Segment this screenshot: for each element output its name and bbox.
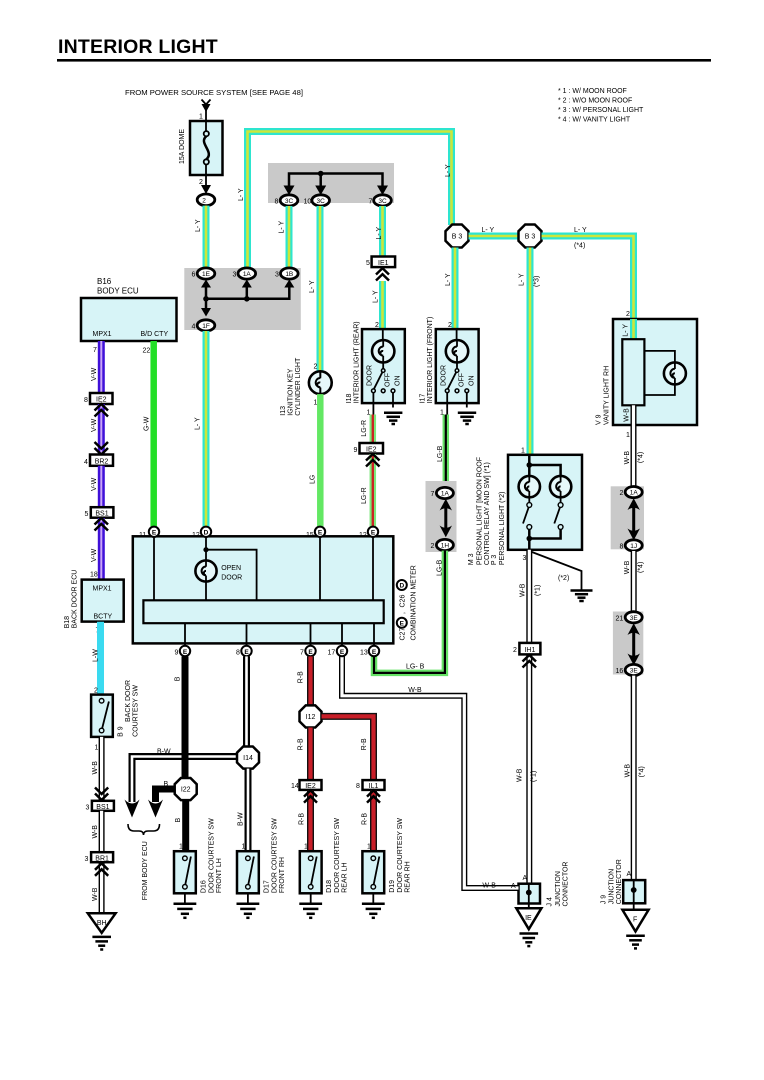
svg-text:E: E: [372, 649, 377, 656]
connector ellipse 7 1A: [431, 487, 454, 498]
pass-through arrows between 3E pair: [628, 623, 640, 665]
svg-text:B-W: B-W: [157, 749, 171, 756]
wire B I22 to D16: [175, 800, 186, 851]
svg-text:E: E: [400, 620, 405, 627]
svg-text:J 9: J 9: [601, 895, 608, 904]
wire W-B V9 to 1A right: [624, 425, 645, 487]
svg-text:(*2): (*2): [558, 575, 569, 582]
ground below D17: [237, 893, 260, 918]
svg-text:D: D: [399, 583, 404, 590]
ground below I18: [384, 413, 402, 424]
connector ellipse 8 3C: [275, 195, 298, 206]
svg-text:IGNITION KEY: IGNITION KEY: [288, 368, 295, 415]
wire R-B IL1 to D19: [362, 790, 374, 851]
svg-text:L- Y: L- Y: [445, 164, 452, 177]
svg-text:3: 3: [85, 856, 89, 863]
wire W-B from meter 17E to J4: [342, 656, 519, 889]
wire L-Y B3 right to vanity light: [542, 227, 634, 319]
svg-text:2: 2: [431, 543, 435, 550]
svg-text:3C: 3C: [317, 198, 326, 205]
svg-text:10: 10: [304, 199, 312, 206]
svg-text:2: 2: [199, 179, 203, 186]
svg-text:17: 17: [328, 650, 336, 657]
gray connector block 3C: [268, 163, 394, 203]
wire stub I18 pin 1: [367, 403, 374, 416]
svg-text:W-B: W-B: [624, 560, 631, 574]
wire W-B BS1 to BR1: [92, 811, 102, 852]
svg-text:DOOR COURTESY SW: DOOR COURTESY SW: [272, 818, 279, 893]
svg-text:B 3: B 3: [525, 234, 536, 241]
wire LG I13 to meter 15E: [310, 394, 321, 527]
svg-text:R-B: R-B: [299, 813, 306, 825]
svg-text:12: 12: [192, 532, 200, 539]
svg-text:14: 14: [291, 783, 299, 790]
svg-text:VANITY LIGHT RH: VANITY LIGHT RH: [604, 366, 611, 425]
I18 INTERIOR LIGHT (REAR): [346, 321, 405, 407]
svg-text:* 1 : W/ MOON ROOF: * 1 : W/ MOON ROOF: [558, 88, 627, 95]
svg-text:(*1): (*1): [535, 585, 542, 596]
svg-text:(*4): (*4): [638, 452, 645, 463]
connector ellipse 6 1E: [192, 268, 215, 279]
octagon I22: [175, 778, 197, 800]
gray connector block 1A/1H: [426, 481, 457, 552]
connector box 3 BS1 lower: [86, 801, 114, 812]
svg-text:2: 2: [202, 197, 206, 204]
meter pin 8 E: [236, 646, 252, 657]
svg-text:J 4: J 4: [547, 897, 554, 906]
svg-text:JUNCTION: JUNCTION: [609, 869, 616, 904]
svg-text:B 9: B 9: [118, 726, 125, 737]
svg-text:DOOR: DOOR: [367, 365, 374, 386]
svg-text:1: 1: [367, 844, 371, 851]
wire V-W BS1 to back door ECU: [90, 518, 101, 580]
svg-text:3C: 3C: [378, 198, 387, 205]
wire from power source into fuse: [199, 100, 211, 121]
svg-text:1F: 1F: [202, 323, 210, 330]
svg-text:FRONT LH: FRONT LH: [216, 858, 223, 893]
svg-text:COURTESY SW: COURTESY SW: [133, 685, 140, 737]
svg-text:DOOR COURTESY SW: DOOR COURTESY SW: [209, 818, 216, 893]
svg-text:R-B: R-B: [298, 671, 305, 683]
svg-text:* 4 : W/ VANITY LIGHT: * 4 : W/ VANITY LIGHT: [558, 117, 631, 124]
svg-text:BACK DOOR ECU: BACK DOOR ECU: [72, 570, 79, 629]
wire R-B meter 7E to I12: [298, 656, 311, 706]
svg-text:15: 15: [306, 532, 314, 539]
svg-text:DOOR: DOOR: [440, 365, 447, 386]
chevron arrows above BS1 lower: [95, 788, 108, 801]
svg-text:W-B: W-B: [624, 451, 631, 465]
svg-text:D16: D16: [201, 880, 208, 893]
meter internal wire 15E to bus: [319, 537, 321, 600]
connector ellipse 21 3E: [616, 612, 643, 623]
svg-text:W-B: W-B: [92, 761, 99, 775]
connector box 8 IE2: [84, 393, 113, 404]
svg-text:L- Y: L- Y: [376, 226, 383, 239]
svg-text:I12: I12: [306, 714, 316, 721]
wire B-W I14 to D17: [238, 769, 249, 852]
svg-text:B/D CTY: B/D CTY: [141, 331, 169, 338]
connector box 3 BR1: [85, 852, 114, 863]
svg-text:R-B: R-B: [298, 738, 305, 750]
connector ellipse 8 1J: [620, 540, 643, 551]
octagon I12: [300, 705, 322, 727]
I17 INTERIOR LIGHT (FRONT): [420, 317, 479, 408]
svg-text:DOOR COURTESY SW: DOOR COURTESY SW: [334, 818, 341, 893]
wire R-B I12 down to IE2: [298, 728, 311, 781]
wire W-B M3 to IH1: [520, 550, 542, 643]
svg-text:21: 21: [616, 615, 624, 622]
chevron arrows below IL1: [367, 790, 380, 802]
svg-text:8: 8: [84, 397, 88, 404]
connector ellipse 2 1H: [431, 539, 454, 550]
svg-text:C27: C27: [400, 628, 407, 641]
svg-text:ON: ON: [468, 376, 475, 387]
svg-text:OFF: OFF: [458, 373, 465, 387]
svg-text:15A DOME: 15A DOME: [179, 129, 186, 164]
svg-text:E: E: [371, 530, 376, 537]
svg-text:E: E: [152, 530, 157, 537]
svg-text:L- Y: L- Y: [574, 227, 587, 234]
chevron arrows below IE2 rear: [366, 454, 380, 467]
svg-text:P 3: P 3: [491, 555, 498, 565]
svg-text:INTERIOR LIGHT (FRONT): INTERIOR LIGHT (FRONT): [427, 317, 434, 404]
svg-text:1J: 1J: [630, 543, 637, 550]
svg-text:REAR RH: REAR RH: [404, 861, 411, 893]
svg-text:7: 7: [431, 491, 435, 498]
ground below D16: [174, 893, 197, 918]
svg-text:7: 7: [300, 650, 304, 657]
B18 BACK DOOR ECU box: [64, 570, 124, 635]
D17 DOOR COURTESY SW FRONT RH: [237, 818, 286, 893]
chevron arrows below IE2: [95, 404, 109, 417]
svg-text:E: E: [183, 649, 188, 656]
ground below D18: [299, 893, 322, 918]
svg-text:I17: I17: [420, 393, 427, 403]
svg-text:(*4): (*4): [574, 243, 585, 250]
wire W-B 1J to 3E: [624, 551, 645, 612]
V9 VANITY LIGHT RH: [596, 311, 698, 439]
svg-text:DOOR COURTESY SW: DOOR COURTESY SW: [397, 818, 404, 893]
ground branch (*2) from M3: [529, 551, 592, 601]
svg-text:4: 4: [192, 324, 196, 331]
svg-text:8: 8: [236, 650, 240, 657]
svg-text:B18: B18: [64, 616, 71, 629]
meter pin 12 D: [192, 527, 211, 539]
svg-text:L- Y: L- Y: [195, 219, 202, 232]
svg-text:V-W: V-W: [91, 477, 98, 491]
ground triangle F: [622, 903, 648, 948]
svg-text:CONTROL RELAY AND SW] (*1): CONTROL RELAY AND SW] (*1): [484, 462, 491, 565]
svg-text:LG- B: LG- B: [406, 664, 425, 671]
svg-text:1A: 1A: [441, 491, 450, 498]
meter internal bus bar: [143, 600, 383, 623]
wire B-W meter 8E to I14: [243, 656, 250, 747]
svg-text:W-B: W-B: [92, 825, 99, 839]
svg-text:W-B: W-B: [520, 583, 527, 597]
svg-text:2: 2: [626, 311, 630, 318]
svg-text:CONNECTOR: CONNECTOR: [616, 859, 623, 904]
pass-through arrows between 1A and 1H: [440, 499, 452, 538]
svg-text:L- Y: L- Y: [238, 188, 245, 201]
meter internal wire 12E to bus: [372, 537, 374, 600]
wire L-Y B3 left down to I17: [445, 248, 455, 330]
svg-text:1: 1: [199, 114, 203, 121]
svg-text:(*4): (*4): [638, 562, 645, 573]
svg-text:1E: 1E: [202, 271, 211, 278]
svg-text:PERSONAL LIGHT [MOON ROOF: PERSONAL LIGHT [MOON ROOF: [476, 457, 483, 565]
svg-text:6: 6: [192, 272, 196, 279]
wire W-B BR1 to BH ground: [92, 863, 102, 913]
svg-text:BR2: BR2: [95, 458, 109, 465]
svg-text:V 9: V 9: [596, 414, 603, 425]
svg-text:2: 2: [314, 364, 318, 371]
svg-text:L- Y: L- Y: [373, 290, 380, 303]
connector ellipse 2 1A right: [620, 487, 643, 498]
svg-text:V-W: V-W: [91, 367, 98, 381]
wire B meter 9E to I22: [175, 656, 186, 778]
svg-text:(*1): (*1): [531, 771, 538, 782]
svg-text:A: A: [523, 875, 528, 882]
svg-text:IE1: IE1: [378, 260, 389, 267]
svg-text:D17: D17: [264, 880, 271, 893]
svg-text:13: 13: [360, 650, 368, 657]
svg-text:B: B: [175, 818, 182, 823]
svg-text:1: 1: [521, 448, 525, 455]
wire L-Y 1F down to meter 12D: [195, 331, 207, 527]
ground triangle IE: [516, 904, 541, 947]
svg-text:FROM POWER SOURCE SYSTEM [SEE: FROM POWER SOURCE SYSTEM [SEE PAGE 48]: [125, 88, 303, 97]
svg-text:A: A: [627, 871, 632, 878]
meter pin 15 E: [306, 527, 325, 539]
svg-text:LG: LG: [310, 475, 317, 484]
wire B I22 left branch to body ECU arrow: [148, 781, 175, 818]
svg-text:W-B: W-B: [624, 408, 631, 422]
connector ellipse 7 3C: [369, 195, 392, 206]
wire L-Y IE1 down to interior light rear: [373, 281, 383, 329]
svg-text:3: 3: [86, 805, 90, 812]
connector box 5 BS1: [85, 507, 114, 518]
ground below I17: [458, 413, 476, 424]
svg-text:3: 3: [523, 555, 527, 562]
wire L-Y fuse column (2 to 1E): [195, 206, 206, 269]
wire LG-B 1H down and to meter 13E: [374, 551, 445, 673]
connector ellipse 16 3E: [616, 664, 643, 675]
svg-text:* 2 : W/O MOON ROOF: * 2 : W/O MOON ROOF: [558, 98, 632, 105]
svg-text:3E: 3E: [630, 668, 639, 675]
B9 BACK DOOR COURTESY SW: [91, 680, 139, 737]
svg-text:L- Y: L- Y: [195, 417, 202, 430]
svg-text:1: 1: [314, 400, 318, 407]
octagon B3 right: [519, 225, 542, 248]
svg-text:* 3 : W/ PERSONAL LIGHT: * 3 : W/ PERSONAL LIGHT: [558, 107, 644, 114]
svg-text:B: B: [164, 781, 169, 788]
svg-text:M 3: M 3: [468, 553, 475, 565]
svg-text:L- Y: L- Y: [482, 227, 495, 234]
wire V-W IE2 to BR2: [91, 404, 101, 454]
svg-text:8: 8: [275, 199, 279, 206]
brace FROM BODY ECU: [128, 824, 160, 900]
svg-text:BS1: BS1: [96, 804, 109, 811]
svg-text:OPEN: OPEN: [221, 565, 241, 572]
wire fuse pin 2 to connector 2: [199, 175, 211, 194]
svg-text:I22: I22: [181, 787, 191, 794]
svg-text:1: 1: [304, 844, 308, 851]
wire B-W I14 left branch to body ECU arrow: [125, 749, 238, 818]
connector ellipse 4 1F: [192, 320, 215, 331]
svg-text:B: B: [175, 676, 182, 681]
svg-text:3: 3: [275, 272, 279, 279]
pass-through arrows between 1A and 1J: [628, 498, 640, 540]
svg-text:L- Y: L- Y: [519, 273, 526, 286]
svg-text:CYLINDER LIGHT: CYLINDER LIGHT: [295, 357, 302, 416]
meter pin 17 E: [328, 646, 348, 657]
I13 IGNITION KEY CYLINDER LIGHT: [280, 357, 332, 416]
svg-text:IH1: IH1: [524, 647, 535, 654]
svg-text:E: E: [318, 530, 323, 537]
svg-text:W-B: W-B: [92, 887, 99, 901]
meter pin 12 E: [359, 527, 378, 539]
svg-text:22: 22: [143, 348, 151, 355]
svg-text:JUNCTION: JUNCTION: [555, 871, 562, 906]
octagon B3 left: [446, 225, 469, 248]
wire W-B 3E to J9: [625, 676, 646, 881]
J4 JUNCTION CONNECTOR: [519, 862, 570, 907]
svg-text:OFF: OFF: [385, 373, 392, 387]
connector ellipse 3 1A: [233, 268, 256, 279]
chevron arrows below IE2 door: [304, 790, 317, 802]
wire LG-B I17 to 1A: [437, 415, 446, 488]
svg-text:8: 8: [620, 543, 624, 550]
wire LG-R I18 to IE2: [361, 415, 373, 444]
meter pin 9 E: [175, 646, 191, 657]
svg-text:R-B: R-B: [361, 738, 368, 750]
svg-text:L-W: L-W: [93, 649, 100, 662]
svg-text:11: 11: [139, 532, 146, 539]
svg-text:B-W: B-W: [238, 812, 245, 826]
svg-text:4: 4: [84, 459, 88, 466]
svg-text:12: 12: [359, 532, 367, 539]
bus wire in 1E block: [201, 280, 294, 317]
svg-text:F: F: [633, 917, 637, 924]
svg-text:IE: IE: [525, 915, 532, 922]
gray connector block 1E/1A/1B/1F: [184, 268, 300, 330]
svg-text:,: ,: [400, 612, 407, 614]
D18 DOOR COURTESY SW REAR LH: [300, 818, 349, 894]
wire R-B I12 right to IL1: [322, 716, 374, 780]
svg-text:I18: I18: [346, 393, 353, 403]
svg-text:1A: 1A: [243, 271, 252, 278]
svg-text:9: 9: [175, 650, 179, 657]
meter connector labels C27 C26: [397, 565, 418, 640]
svg-text:8: 8: [356, 783, 360, 790]
svg-text:5: 5: [366, 260, 370, 267]
svg-text:3: 3: [233, 272, 237, 279]
chevron arrows below IH1: [523, 655, 537, 668]
svg-text:3E: 3E: [630, 615, 639, 622]
svg-text:G-W: G-W: [144, 416, 151, 431]
svg-text:D19: D19: [389, 880, 396, 893]
connector box 8 IL1: [356, 780, 385, 790]
connector ellipse 10 3C: [304, 195, 330, 206]
svg-text:2: 2: [513, 647, 517, 654]
svg-text:2: 2: [620, 490, 624, 497]
svg-text:ON: ON: [395, 376, 402, 387]
svg-text:L- Y: L- Y: [279, 220, 286, 233]
fuse 15A DOME: [179, 121, 223, 175]
wire W-B IH1 to J4: [517, 655, 538, 884]
connector box 5 IE1: [366, 257, 395, 268]
svg-text:BACK DOOR: BACK DOOR: [125, 680, 132, 722]
svg-text:E: E: [340, 649, 345, 656]
chevron arrows below BS1: [95, 518, 109, 531]
wire W-B B9 to BS1: [92, 737, 102, 801]
svg-text:BODY ECU: BODY ECU: [97, 287, 139, 296]
connector box 9 IE2: [354, 443, 384, 454]
svg-text:I14: I14: [243, 755, 253, 762]
meter pin 13 E: [360, 646, 379, 657]
svg-text:(*4): (*4): [639, 766, 646, 777]
svg-text:1: 1: [179, 844, 183, 851]
svg-text:V-W: V-W: [91, 548, 98, 562]
wire stub I17 pin 1: [440, 403, 447, 416]
gray connector block 1A/1J right: [611, 486, 644, 549]
meter internal wire 12D to open door bulb: [203, 537, 256, 600]
svg-text:COMBINATION METER: COMBINATION METER: [411, 565, 418, 640]
wire L-Y B3 right down to M3: [519, 248, 541, 456]
svg-text:1: 1: [242, 844, 246, 851]
svg-text:D18: D18: [326, 880, 333, 893]
svg-text:LG-R: LG-R: [361, 420, 368, 437]
wire L-Y 10 3C down to I13: [309, 206, 320, 372]
svg-text:9: 9: [354, 447, 358, 454]
meter internal wires bus to bottom pins: [185, 623, 374, 646]
svg-text:W-B: W-B: [408, 687, 422, 694]
chevron arrows below IE1: [376, 268, 389, 280]
wire LG-R IE2 to meter 12E: [361, 454, 373, 527]
svg-text:DOOR: DOOR: [221, 575, 242, 582]
svg-text:L- Y: L- Y: [445, 273, 452, 286]
svg-text:W-B: W-B: [625, 764, 632, 778]
svg-text:LG-B: LG-B: [437, 559, 444, 576]
wire V-W BR2 to BS1: [91, 466, 101, 507]
B16 BODY ECU box: [81, 277, 177, 355]
ground below D19: [362, 893, 385, 918]
svg-text:1B: 1B: [285, 271, 293, 278]
wire L-Y top horizontal run: [238, 132, 452, 271]
svg-text:C26: C26: [400, 595, 407, 608]
svg-text:BCTY: BCTY: [94, 613, 113, 620]
svg-text:BS1: BS1: [95, 511, 108, 518]
svg-text:REAR LH: REAR LH: [342, 862, 349, 892]
svg-text:CONNECTOR: CONNECTOR: [563, 862, 570, 907]
connector ellipse 2: [197, 194, 215, 206]
svg-text:3C: 3C: [285, 198, 294, 205]
combination meter box: [133, 536, 394, 643]
svg-text:E: E: [308, 649, 313, 656]
D16 DOOR COURTESY SW FRONT LH: [174, 818, 223, 893]
wire L-Y 7 3C down to IE1: [376, 206, 383, 257]
svg-text:1H: 1H: [441, 543, 450, 550]
svg-text:R-B: R-B: [362, 813, 369, 825]
svg-text:7: 7: [93, 347, 97, 354]
title underline: [57, 59, 711, 62]
svg-text:LG-B: LG-B: [437, 445, 444, 462]
wire G-W B/D CTY to meter 11E: [144, 341, 154, 527]
wire R-B IE2 to D18: [299, 790, 311, 851]
svg-text:B 3: B 3: [452, 234, 463, 241]
svg-text:E: E: [244, 649, 249, 656]
svg-text:W-B: W-B: [517, 768, 524, 782]
